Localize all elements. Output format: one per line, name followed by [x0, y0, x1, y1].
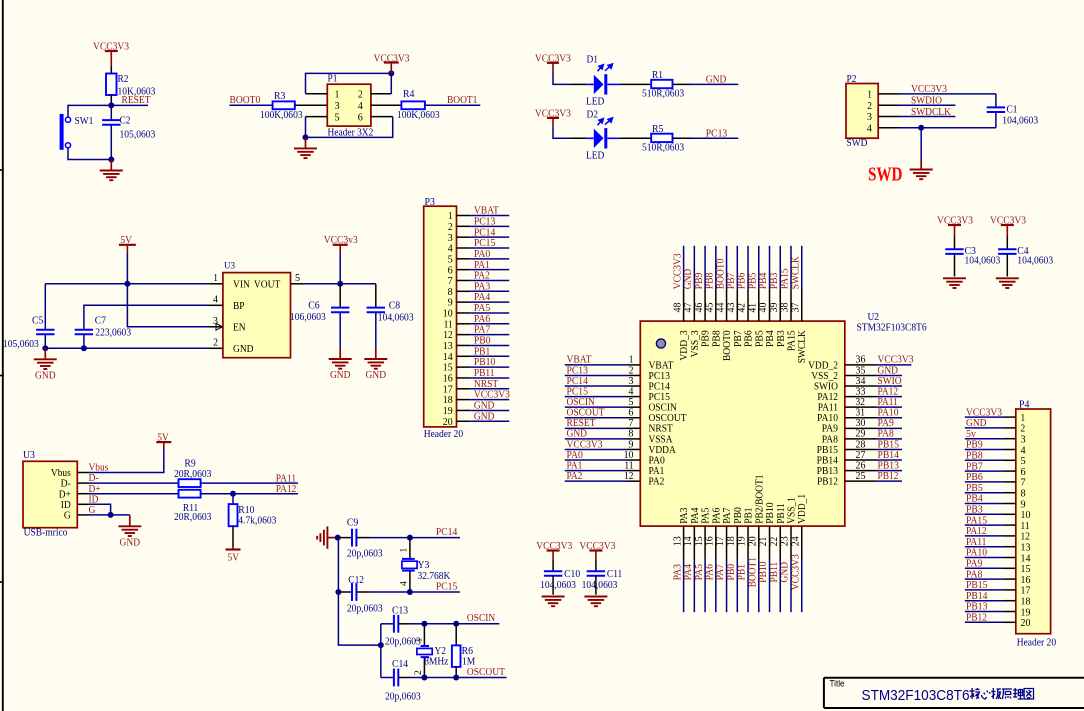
pin stub U2-45 — [715, 290, 717, 322]
wire net PC13 (P3-2) — [470, 225, 509, 227]
capacitor C12 — [352, 583, 356, 601]
svg-text:PB12: PB12 — [817, 476, 838, 488]
svg-text:4: 4 — [213, 294, 219, 306]
wire C6 bottom lead — [339, 312, 341, 348]
pin stub P3-16 — [457, 377, 471, 379]
wire gnd to C9 — [338, 537, 352, 539]
wire net VCC3V3 (U2-24) — [801, 559, 803, 613]
wire net OSCOUT (U2-6) — [565, 417, 627, 419]
power VCC3V3 symbol (D2) — [547, 118, 559, 126]
pin stub P3-10 — [457, 312, 471, 314]
capacitor C4 — [998, 249, 1016, 254]
pin stub P1-4 — [371, 104, 402, 106]
svg-text:SWDCLK: SWDCLK — [911, 106, 951, 118]
pin stub P4-14 — [1004, 557, 1016, 559]
svg-text:104,0603: 104,0603 — [1002, 114, 1038, 126]
switch SW1 actuator bar — [60, 114, 64, 150]
wire net PB10 (P3-15) — [470, 366, 509, 368]
resistor R1 — [651, 80, 672, 88]
wire P2 pin3 SWDCLK — [899, 116, 956, 118]
power VCC3v3 symbol (VOUT) — [333, 245, 348, 253]
pin stub P4-16 — [1004, 578, 1016, 580]
svg-text:U3: U3 — [224, 261, 235, 271]
svg-text:PA2: PA2 — [567, 470, 583, 482]
pin stub U3-4 — [210, 304, 223, 306]
pin stub P3-12 — [457, 334, 471, 336]
svg-text:PC14: PC14 — [436, 526, 458, 538]
pin stub P2-4 — [878, 127, 898, 129]
pin stub P4-12 — [1004, 535, 1016, 537]
wire net BOOT1 (U2-20) — [758, 559, 760, 613]
svg-text:D2: D2 — [587, 109, 599, 121]
svg-text:C9: C9 — [347, 516, 359, 528]
svg-text:6: 6 — [358, 111, 364, 123]
svg-text:SWCLK: SWCLK — [796, 330, 808, 363]
wire net VCC3V3 (P3-18) — [470, 399, 509, 401]
wire net PB15 (U2-28) — [876, 448, 902, 450]
node gnd junction (P2) — [918, 125, 924, 131]
svg-text:5V: 5V — [157, 432, 169, 444]
wire net PC13 (U2-2) — [565, 374, 627, 376]
svg-text:BOOT0: BOOT0 — [230, 94, 261, 106]
pin-1 indicator circle (U2) — [656, 339, 665, 348]
svg-text:USB-mrico: USB-mrico — [24, 527, 68, 539]
wire VCC to C11 — [595, 559, 597, 571]
pin stub U2-7 — [627, 427, 640, 429]
ground (U3 rail) — [34, 348, 57, 381]
svg-text:20R,0603: 20R,0603 — [174, 511, 212, 523]
wire C6 top lead — [339, 284, 341, 308]
wire R10 bottom lead — [232, 526, 234, 546]
pin stub U2-21 — [769, 526, 771, 558]
ground (reset) — [100, 160, 123, 181]
wire net PA7 (P3-12) — [470, 334, 509, 336]
pin stub P3-15 — [457, 366, 471, 368]
svg-text:VCC3V3: VCC3V3 — [789, 554, 801, 590]
pin stub U2-8 — [627, 438, 640, 440]
pin stub U2-23 — [790, 526, 792, 558]
ground (C8) — [364, 348, 387, 381]
svg-text:2: 2 — [414, 670, 424, 675]
pin stub P3-18 — [457, 399, 471, 401]
svg-text:GND: GND — [120, 536, 141, 548]
svg-text:3: 3 — [867, 111, 873, 123]
pin stub USB ID — [77, 503, 88, 505]
wire net PB14 (U2-27) — [876, 459, 902, 461]
svg-text:5: 5 — [334, 111, 340, 123]
wire LED to R1 — [620, 83, 652, 85]
pin stub P3-20 — [457, 420, 471, 422]
wire Y2 pin2 lead — [423, 657, 425, 677]
node gnd junction (P1) — [303, 134, 309, 140]
wire net PB11 (P3-16) — [470, 377, 509, 379]
wire C11 to gnd — [595, 576, 597, 595]
svg-text:OSCIN: OSCIN — [467, 612, 495, 624]
svg-text:Header 20: Header 20 — [424, 428, 464, 440]
svg-text:C13: C13 — [392, 605, 409, 617]
svg-text:C12: C12 — [348, 574, 364, 586]
pin stub U2-17 — [726, 526, 728, 558]
wire net PB12 (P4-20) — [965, 621, 1004, 623]
capacitor C6 — [331, 308, 349, 313]
wire net PA12 (P4-12) — [965, 535, 1004, 537]
svg-text:OSCOUT: OSCOUT — [467, 666, 505, 678]
svg-text:PB12: PB12 — [966, 612, 987, 624]
wire net GND (P3-20) — [470, 420, 509, 422]
ground sideways (crystals) — [317, 526, 335, 548]
wire to C12 — [338, 591, 352, 593]
svg-text:104,0603: 104,0603 — [378, 312, 414, 324]
pin stub U2-3 — [627, 385, 640, 387]
pin stub P4-8 — [1004, 492, 1016, 494]
svg-text:1: 1 — [400, 548, 410, 553]
svg-text:5: 5 — [295, 272, 301, 284]
wire black to LED D2 — [570, 137, 586, 139]
pin stub U2-40 — [769, 290, 771, 322]
svg-text:20p,0603: 20p,0603 — [347, 603, 383, 615]
wire C4 to gnd — [1006, 254, 1008, 277]
wire BOOT0 — [230, 104, 273, 106]
wire net SWCLK (U2-37) — [801, 246, 803, 290]
svg-text:C7: C7 — [95, 315, 107, 327]
wire R1 to net — [673, 83, 691, 85]
wire net PA6 (P3-11) — [470, 323, 509, 325]
svg-text:VCC3V3: VCC3V3 — [374, 52, 410, 64]
wire G to gnd — [89, 514, 130, 516]
wire net PC14 (U2-3) — [565, 385, 627, 387]
wire net PC14 (P3-3) — [470, 236, 509, 238]
pin stub P3-8 — [457, 290, 471, 292]
svg-text:1: 1 — [415, 638, 425, 643]
pin stub P1-5 — [306, 116, 328, 118]
svg-text:D1: D1 — [587, 54, 599, 66]
wire net VCC3V3 (P4-1) — [965, 416, 1004, 418]
ground (C6) — [329, 348, 352, 381]
pin stub P3-5 — [457, 258, 471, 260]
pin stub U2-27 — [845, 459, 877, 461]
resistor R4 — [401, 101, 425, 109]
node Y2 top junction — [421, 621, 427, 627]
wire net PB8 (P4-5) — [965, 459, 1004, 461]
svg-text:VIN: VIN — [233, 279, 250, 291]
svg-text:GND: GND — [474, 410, 495, 422]
node R6 bottom junction — [453, 675, 459, 681]
power 5V symbol (Vbus) — [156, 442, 171, 449]
wire net VCC3V3 (U2-48) — [683, 246, 685, 290]
pin stub P4-10 — [1004, 513, 1016, 515]
svg-text:LED: LED — [586, 150, 604, 162]
wire C2 to gnd node — [110, 125, 112, 160]
pin stub P4-20 — [1004, 621, 1016, 623]
svg-text:SWCLK: SWCLK — [789, 256, 801, 289]
pin stub P3-1 — [457, 215, 471, 217]
wire OSCIN rail — [424, 623, 499, 625]
pin stub U2-43 — [736, 290, 738, 322]
pin stub U2-24 — [801, 526, 803, 558]
wire net PA8 (P4-16) — [965, 578, 1004, 580]
svg-text:SWDIO: SWDIO — [911, 95, 942, 107]
wire net PB6 (U2-42) — [747, 246, 749, 290]
capacitor C9 — [352, 529, 356, 547]
wire GND rail (U3) — [45, 347, 209, 349]
pin stub U2-20 — [758, 526, 760, 558]
svg-text:510R,0603: 510R,0603 — [642, 142, 685, 154]
svg-text:100K,0603: 100K,0603 — [260, 109, 303, 121]
capacitor C7 — [75, 330, 93, 335]
pin stub U2-12 — [627, 480, 640, 482]
svg-text:2: 2 — [213, 337, 218, 349]
wire net PB7 (P4-6) — [965, 470, 1004, 472]
wire C1 top lead — [995, 94, 997, 107]
svg-text:104,0603: 104,0603 — [540, 579, 576, 591]
wire net PC15 (P3-4) — [470, 247, 509, 249]
svg-text:104,0603: 104,0603 — [965, 255, 1001, 267]
pin stub U2-29 — [845, 438, 877, 440]
node Y3 bottom junction — [407, 589, 413, 595]
pin stub U3-2 — [210, 347, 223, 349]
svg-text:R5: R5 — [652, 123, 664, 135]
pin stub P2-1 — [878, 93, 898, 95]
pin stub U2-31 — [845, 417, 877, 419]
wire net VBAT (U2-1) — [565, 364, 627, 366]
pin stub U2-14 — [693, 526, 695, 558]
node C5 gnd junction — [42, 345, 48, 351]
svg-text:BP: BP — [233, 300, 245, 312]
wire P2 pin4 gnd rail — [899, 127, 996, 129]
svg-text:R1: R1 — [652, 69, 663, 81]
svg-text:R2: R2 — [118, 73, 129, 85]
svg-text:8MHz: 8MHz — [424, 655, 448, 667]
svg-text:RESET: RESET — [122, 94, 151, 106]
node C7 gnd junction — [81, 345, 87, 351]
wire VCC to LED D2 — [553, 126, 570, 138]
sheet border left edge — [2, 0, 4, 711]
pin stub P3-13 — [457, 344, 471, 346]
wire net PA3 (U2-13) — [683, 559, 685, 613]
pin stub P4-1 — [1004, 416, 1016, 418]
wire net PA5 (P3-10) — [470, 312, 509, 314]
pin stub U2-30 — [845, 427, 877, 429]
wire C3 to gnd — [954, 254, 956, 277]
wire crystal left column upper — [337, 538, 339, 592]
ground (P1) — [294, 137, 317, 158]
wire net PA4 (P3-9) — [470, 301, 509, 303]
pin stub U2-48 — [683, 290, 685, 322]
wire net PB9 (U2-46) — [704, 246, 706, 290]
wire net PA1 (U2-11) — [565, 470, 627, 472]
crystal Y3 — [402, 559, 417, 571]
svg-text:GND: GND — [233, 343, 254, 355]
wire C12 to PC15 node — [356, 591, 410, 593]
wire net GND (P4-2) — [965, 427, 1004, 429]
svg-text:20: 20 — [443, 416, 453, 428]
wire net PB5 (P4-8) — [965, 492, 1004, 494]
svg-text:C6: C6 — [308, 300, 320, 312]
svg-text:C14: C14 — [392, 658, 409, 670]
wire VOUT rail — [304, 283, 376, 285]
svg-text:STM32F103C8T6: STM32F103C8T6 — [862, 687, 970, 704]
node gnd junction (reset) — [108, 157, 114, 163]
pin stub P4-11 — [1004, 524, 1016, 526]
wire net PA0 (P3-5) — [470, 258, 509, 260]
wire net GND (U2-47) — [693, 246, 695, 290]
svg-text:P3: P3 — [425, 196, 436, 208]
capacitor C1 — [987, 107, 1005, 112]
wire net PA12 (U2-33) — [876, 396, 902, 398]
pin stub U2-11 — [627, 470, 640, 472]
pin stub P3-9 — [457, 301, 471, 303]
wire net OSCIN (U2-5) — [565, 406, 627, 408]
node C12 junction — [335, 589, 341, 595]
pin stub P4-15 — [1004, 567, 1016, 569]
capacitor C14 — [394, 669, 398, 687]
wire to C14 — [381, 677, 393, 679]
wire EN tie to VIN — [127, 284, 209, 327]
svg-text:4.7k,0603: 4.7k,0603 — [238, 515, 277, 527]
pin stub P3-6 — [457, 269, 471, 271]
wire net PB11 (U2-22) — [779, 559, 781, 613]
wire Vbus to 5V — [89, 450, 164, 473]
svg-text:104,0603: 104,0603 — [582, 579, 618, 591]
ground (USB) — [118, 515, 141, 548]
wire net PB15 (P4-17) — [965, 589, 1004, 591]
svg-text:P1: P1 — [328, 73, 338, 85]
pin stub USB G — [77, 514, 88, 516]
svg-text:R3: R3 — [274, 90, 286, 102]
wire net PA1 (P3-6) — [470, 269, 509, 271]
wire to C13 — [381, 623, 393, 625]
capacitor C5 — [36, 330, 54, 335]
wire net PB5 (U2-41) — [758, 246, 760, 290]
svg-text:106,0603: 106,0603 — [290, 311, 326, 323]
wire R6 top lead — [455, 624, 457, 646]
wire C7 bottom lead — [83, 334, 85, 348]
svg-text:P4: P4 — [1019, 399, 1030, 411]
pin stub U2-44 — [726, 290, 728, 322]
wire net PB1 (U2-19) — [747, 559, 749, 613]
wire net PB8 (U2-45) — [715, 246, 717, 290]
wire R2 to RESET node — [110, 95, 112, 105]
svg-text:20R,0603: 20R,0603 — [174, 468, 212, 480]
pin stub U2-4 — [627, 396, 640, 398]
pin stub P4-3 — [1004, 438, 1016, 440]
pin stub USB D- — [77, 482, 88, 484]
pin stub U2-2 — [627, 374, 640, 376]
wire VCC to C4 — [1006, 237, 1008, 250]
wire net PA9 (P4-15) — [965, 567, 1004, 569]
wire R5 to net — [673, 137, 691, 139]
wire net RESET (U2-7) — [565, 427, 627, 429]
wire PC14 stub — [410, 537, 460, 539]
pin stub U2-39 — [779, 290, 781, 322]
svg-text:GND: GND — [330, 369, 351, 381]
wire RESET net stub — [111, 104, 148, 106]
svg-text:SW1: SW1 — [75, 115, 94, 127]
wire net GND — [690, 83, 738, 85]
wire net PA8 (U2-29) — [876, 438, 902, 440]
wire net PA2 (U2-12) — [565, 480, 627, 482]
resistor R9 — [179, 479, 201, 487]
wire C13-C14 left column — [380, 624, 382, 678]
connector P3 body — [424, 206, 457, 427]
pin stub U2-1 — [627, 364, 640, 366]
pin stub U2-16 — [715, 526, 717, 558]
svg-text:5V: 5V — [228, 552, 240, 564]
wire C1 bottom lead — [995, 112, 997, 127]
svg-text:BOOT1: BOOT1 — [447, 94, 477, 106]
svg-text:C5: C5 — [32, 315, 44, 327]
capacitor C2 — [102, 120, 120, 125]
wire net VCC3V3 (U2-9) — [565, 448, 627, 450]
svg-text:24: 24 — [789, 536, 801, 546]
resistor R10 — [229, 504, 238, 526]
svg-text:20: 20 — [1021, 617, 1031, 629]
pin stub P3-17 — [457, 388, 471, 390]
wire node to SW1 top — [68, 105, 111, 117]
wire net PB0 (U2-18) — [736, 559, 738, 613]
pin stub P3-11 — [457, 323, 471, 325]
svg-text:3: 3 — [334, 100, 340, 112]
svg-text:PC15: PC15 — [436, 580, 458, 592]
pin stub U2-47 — [693, 290, 695, 322]
pin stub U2-26 — [845, 470, 877, 472]
wire net PB6 (P4-7) — [965, 481, 1004, 483]
svg-text:4: 4 — [400, 581, 410, 586]
switch SW1 contact top — [65, 117, 70, 122]
pin stub U3-5 — [291, 283, 304, 285]
wire net PA0 (U2-10) — [565, 459, 627, 461]
svg-text:VCC3V3: VCC3V3 — [911, 83, 947, 95]
pin stub U3-1 — [210, 283, 223, 285]
wire VCC to C10 — [552, 559, 554, 571]
wire net PA4 (U2-14) — [693, 559, 695, 613]
svg-text:GND: GND — [35, 369, 56, 381]
pin stub U2-15 — [704, 526, 706, 558]
pin stub U2-46 — [704, 290, 706, 322]
wire black to LED D1 — [570, 83, 586, 85]
svg-text:223,0603: 223,0603 — [95, 327, 131, 339]
resistor R11 — [179, 490, 201, 498]
wire C8 top lead — [375, 284, 377, 308]
power VCC3V3 symbol (C10) — [547, 551, 560, 560]
wire Y2 pin1 lead — [423, 624, 425, 646]
svg-text:510R,0603: 510R,0603 — [642, 88, 685, 100]
wire net PC15 (U2-4) — [565, 396, 627, 398]
pin stub P4-17 — [1004, 589, 1016, 591]
svg-text:GND: GND — [706, 74, 727, 86]
power VCC3V3 symbol (C3) — [948, 225, 961, 237]
regulator U3 body — [223, 273, 291, 358]
wire net PA2 (P3-7) — [470, 279, 509, 281]
pin stub U2-6 — [627, 417, 640, 419]
pin stub P4-6 — [1004, 470, 1016, 472]
pin stub U2-18 — [736, 526, 738, 558]
wire D+ to R11 — [89, 493, 179, 495]
svg-text:4: 4 — [358, 100, 364, 112]
svg-text:SWD: SWD — [847, 137, 868, 149]
pin stub U2-10 — [627, 459, 640, 461]
sheet border tick 1 — [0, 169, 4, 171]
wire net PA11 (P4-13) — [965, 546, 1004, 548]
wire ID to gnd — [89, 504, 111, 515]
power VCC3V3 symbol (D1) — [547, 63, 559, 71]
ground (C11) — [584, 597, 607, 607]
svg-text:LED: LED — [586, 96, 604, 108]
svg-text:2: 2 — [867, 100, 872, 112]
wire R9 to PA11 — [201, 482, 298, 484]
pin stub P4-18 — [1004, 600, 1016, 602]
connector P1 body — [327, 84, 371, 126]
